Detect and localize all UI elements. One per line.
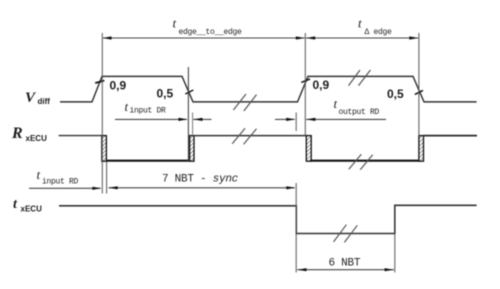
dimension t_input RD — [29, 167, 102, 190]
svg-text:Δ edge: Δ edge — [365, 28, 393, 37]
node 0.9 tick on first rising edge — [95, 81, 104, 83]
svg-text:xECU: xECU — [26, 134, 48, 143]
break symbol on Vdiff top line 2 — [349, 70, 371, 86]
svg-text:t: t — [358, 16, 362, 31]
break symbol on RxECU high line — [232, 128, 256, 144]
node 0.5 tick on second falling edge — [415, 90, 423, 94]
svg-text:0,9: 0,9 — [313, 78, 330, 92]
dimension 6 NBT — [297, 258, 394, 272]
dimension t_delta_edge — [306, 16, 419, 40]
svg-text:edge__to__edge: edge__to__edge — [179, 28, 243, 37]
extension line A (first V rising edge) — [101, 33, 103, 194]
extension line G (V falling edge 2) — [418, 33, 420, 136]
svg-text:7 NBT - sync: 7 NBT - sync — [162, 174, 239, 186]
svg-text:xECU: xECU — [21, 205, 43, 214]
extension line E (V rising edge 2) — [304, 33, 306, 136]
wire RxECU high segment 2 — [194, 135, 306, 137]
extension line D (R rising edge 1) — [192, 113, 194, 136]
wire RxECU high segment 3 — [424, 135, 478, 137]
transition hatched bar 2 (R rising) — [190, 136, 194, 162]
svg-text:input RD: input RD — [42, 178, 79, 187]
svg-text:6 NBT: 6 NBT — [329, 258, 361, 270]
svg-text:t: t — [125, 99, 129, 114]
extension line C (V falling edge 1) — [187, 67, 189, 161]
extension line F (t xECU falling edge, lower) — [295, 183, 297, 273]
transition hatched bar 4 (R rising) — [419, 136, 424, 162]
wire txECU waveform — [59, 205, 477, 233]
svg-text:t: t — [334, 96, 338, 111]
extension line F (t xECU falling edge, upper) — [295, 113, 297, 132]
transition hatched bar 1 (R falling) — [102, 136, 107, 162]
svg-text:t: t — [37, 167, 41, 182]
svg-text:R: R — [11, 125, 23, 142]
wire RxECU high segment 1 — [59, 135, 102, 137]
svg-text:0,5: 0,5 — [387, 87, 404, 101]
svg-text:input DR: input DR — [130, 107, 167, 116]
svg-text:t: t — [173, 16, 177, 31]
break symbol on RxECU low line 2 — [349, 154, 373, 170]
dimension t_output RD — [275, 96, 386, 121]
node 0.9 tick on second rising edge — [301, 79, 310, 82]
extension line B (R falling edge 1) — [106, 162, 108, 194]
svg-text:0,9: 0,9 — [110, 79, 127, 93]
svg-text:V: V — [25, 90, 37, 106]
svg-text:t: t — [13, 197, 18, 212]
svg-text:output RD: output RD — [339, 108, 380, 117]
dimension 7 NBT - sync — [109, 174, 296, 190]
break symbol on Vdiff low line — [233, 94, 256, 111]
dimension t_input DR — [115, 99, 212, 121]
extension line H (t xECU rising edge) — [394, 234, 396, 273]
wire RxECU low segment 1 (bold) — [106, 160, 189, 162]
svg-text:0,5: 0,5 — [157, 87, 174, 101]
node 0.5 tick on first falling edge — [185, 90, 193, 94]
svg-text:diff: diff — [38, 97, 51, 106]
transition hatched bar 3 (R falling) — [306, 136, 311, 162]
dimension t_edge_to_edge — [102, 16, 305, 40]
wire Vdiff waveform — [60, 76, 477, 102]
break symbol on txECU low line — [334, 225, 358, 243]
wire RxECU low segment 2 (bold) — [311, 160, 419, 162]
